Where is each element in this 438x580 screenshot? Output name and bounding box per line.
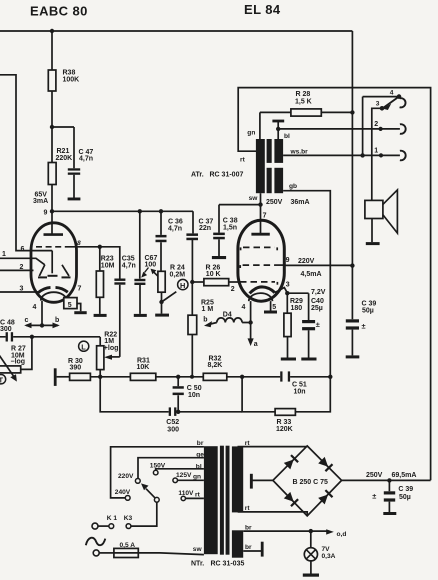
svg-text:0,2M: 0,2M	[170, 272, 186, 279]
bridge rectifier B 250 C 75 diamond	[273, 446, 342, 516]
wire screen 220V	[284, 264, 352, 266]
jack arc 2	[400, 124, 406, 134]
svg-text:7,2V: 7,2V	[311, 289, 326, 296]
node heater junction	[40, 323, 44, 327]
svg-text:10n: 10n	[294, 388, 306, 395]
label C52 300	[166, 419, 179, 433]
label sw	[249, 195, 259, 202]
diode bottom-left	[284, 492, 298, 506]
svg-text:1: 1	[2, 251, 6, 258]
capacitor C36	[156, 211, 167, 271]
label 125V	[176, 472, 192, 479]
node junction C50 bottom	[176, 410, 180, 414]
svg-text:b: b	[55, 317, 59, 324]
node junction R33 left	[240, 375, 244, 379]
wire contact3 to speaker	[372, 108, 382, 200]
svg-text:250V: 250V	[266, 199, 283, 206]
capacitor C50	[173, 377, 184, 412]
svg-text:−log: −log	[11, 359, 26, 366]
pin label 4	[242, 304, 246, 311]
label R27 10M -log	[11, 346, 26, 366]
svg-text:C52: C52	[166, 419, 179, 426]
svg-text:4: 4	[33, 304, 37, 311]
chassis bar C40	[301, 358, 316, 361]
chassis bar R24	[155, 314, 169, 317]
svg-text:b: b	[203, 316, 207, 323]
label R21 220K	[56, 148, 73, 162]
svg-text:4,7n: 4,7n	[168, 225, 182, 232]
inductor D4	[217, 318, 251, 323]
svg-text:L: L	[81, 342, 86, 351]
capacitor C51	[280, 371, 330, 381]
label 250V 69,5mA	[366, 472, 416, 479]
resistor R31	[130, 373, 203, 380]
node junction gb/R33	[328, 375, 332, 379]
label 7,2V	[311, 289, 326, 296]
wire shield to C35	[100, 247, 120, 279]
svg-text:±: ±	[362, 321, 366, 330]
chassis bar R29	[281, 358, 296, 361]
V1 cathode arcs	[38, 287, 68, 292]
node junction R25 bottom	[190, 375, 194, 379]
wire pin 1	[0, 258, 45, 265]
label bl NTr	[196, 463, 202, 470]
wire ge tap to 220V	[138, 458, 204, 479]
V1 diode plate left	[38, 265, 47, 278]
wire bl tap with terminal	[272, 120, 284, 139]
wire lower bus	[100, 377, 242, 412]
label sw NTr	[193, 546, 203, 553]
pin label 7	[78, 286, 82, 293]
V1 grid tick center	[48, 275, 58, 277]
svg-text:C40: C40	[311, 298, 324, 305]
wire br mains tap to 240V	[111, 447, 204, 498]
label C48 300	[0, 319, 15, 332]
wire contact 2	[278, 128, 400, 130]
label C 37 22n	[199, 218, 214, 232]
resistor R30	[57, 373, 131, 380]
AC tilde symbol	[86, 538, 106, 545]
V1 shield dashed pin 8	[36, 246, 100, 248]
transformer NTr core bars	[220, 446, 230, 555]
label ge	[196, 451, 204, 458]
label ATr. RC 31-007	[191, 171, 243, 178]
label C67 100 with arrow	[141, 255, 157, 278]
label R 28 1,5 K	[295, 91, 312, 105]
label gn	[247, 130, 255, 137]
node contact 1	[379, 153, 383, 157]
node pin 9 junction	[50, 209, 54, 213]
node junction bl/contact2	[276, 127, 280, 131]
label 7V 0,3A	[322, 546, 336, 560]
wire B+ top rail horizontal	[0, 30, 352, 32]
node junction C48/R27	[30, 335, 34, 339]
svg-text:10K: 10K	[137, 364, 150, 371]
wire mains to K1	[98, 525, 109, 527]
pin label 2	[20, 264, 24, 271]
wire pivot to K3	[131, 502, 157, 526]
terminal circle 110V	[181, 496, 185, 500]
switch circle K3	[126, 524, 131, 529]
pin label 5	[68, 302, 72, 309]
transformer ATr secondary bars	[274, 139, 283, 193]
svg-text:RC 31-035: RC 31-035	[211, 561, 245, 568]
label D4	[223, 312, 232, 319]
resistor R25	[188, 282, 197, 377]
label 220V	[118, 473, 134, 480]
wire pin 3	[0, 291, 39, 293]
resistor R32	[203, 373, 280, 380]
wire br heater top	[243, 530, 326, 532]
lamp 7V 0,3A	[304, 531, 317, 573]
svg-text:D4: D4	[223, 312, 232, 319]
node junction R38/R21/C47	[50, 125, 54, 129]
svg-text:1,5 K: 1,5 K	[295, 98, 312, 105]
potentiometer R24	[151, 269, 177, 314]
svg-text:bl: bl	[284, 133, 290, 140]
label R29 180	[290, 298, 303, 312]
label NTr. RC 31-035	[191, 561, 244, 568]
capacitor C39 electrolytic rail	[346, 319, 366, 355]
terminal circle 150V	[153, 470, 158, 475]
tube title EABC 80	[30, 4, 88, 19]
svg-text:4,5mA: 4,5mA	[301, 271, 322, 278]
label R 30 390	[68, 358, 83, 372]
svg-text:a: a	[254, 341, 258, 348]
label a	[254, 341, 258, 348]
contact 4 wire	[363, 96, 397, 98]
label 0,5 A	[120, 542, 136, 549]
terminal circle 240V	[125, 496, 130, 501]
node junction anode pin7	[258, 202, 262, 206]
capacitor C40 electrolytic	[287, 293, 320, 357]
transformer NTr heater winding bar	[232, 530, 243, 557]
wire gn tap to 125V	[178, 479, 204, 481]
svg-text:50µ: 50µ	[362, 308, 374, 315]
pin label 4	[33, 304, 37, 311]
svg-text:25µ: 25µ	[311, 305, 323, 312]
svg-text:100: 100	[145, 262, 157, 269]
svg-text:±: ±	[372, 492, 376, 501]
svg-text:c: c	[25, 317, 29, 324]
chassis bar pin5 EL84	[264, 311, 277, 314]
label C 39 50µ	[362, 300, 377, 314]
V2 heater arc	[249, 293, 273, 301]
terminal bar R30 left	[54, 368, 57, 386]
node junction bus/R22	[98, 375, 102, 379]
label ws.br	[290, 149, 309, 156]
svg-text:B 250 C 75: B 250 C 75	[293, 479, 329, 486]
contact labels 1 2 3 4	[374, 89, 394, 154]
node junction top of R38	[50, 29, 54, 33]
svg-text:4,7n: 4,7n	[122, 262, 136, 269]
svg-text:6: 6	[21, 246, 25, 253]
pin label 1	[2, 251, 6, 258]
node junction g1 EL84	[190, 280, 194, 284]
terminal bar heater	[261, 542, 264, 557]
label br	[197, 440, 204, 447]
resistor R28	[260, 109, 353, 116]
fuse 0,5A	[99, 548, 204, 557]
node junction D4/heater	[248, 320, 252, 324]
pin label 2 EL84	[231, 286, 235, 293]
svg-text:50µ: 50µ	[399, 494, 411, 501]
label bl	[284, 133, 290, 140]
svg-text:180: 180	[291, 305, 303, 312]
V2 anode lead pin 7	[251, 205, 269, 235]
label 220V	[298, 258, 315, 265]
control circle T	[0, 375, 6, 385]
wire contact4 to ws.br	[362, 97, 364, 156]
label B 250 C 75	[293, 479, 329, 486]
label c	[25, 317, 29, 324]
capacitor C48	[0, 332, 100, 341]
svg-text:10M: 10M	[101, 262, 115, 269]
diode top-right	[318, 457, 332, 471]
pin label 6	[21, 246, 25, 253]
node contact 2	[379, 127, 383, 131]
resistor R33	[242, 377, 330, 416]
wire wiper to R22	[104, 355, 120, 360]
pin label 3	[20, 286, 24, 293]
label C 36 4,7n	[168, 219, 183, 233]
terminal circle 220V	[135, 479, 140, 484]
node junction C36 top	[159, 209, 163, 213]
chassis bar C67	[134, 314, 147, 317]
label o,d	[337, 531, 347, 538]
V1 anode lead pin 9	[44, 211, 64, 234]
transformer NTr HT winding bar	[232, 446, 243, 512]
wire gn primary top	[259, 112, 261, 139]
svg-text:22n: 22n	[199, 225, 211, 232]
label br heater top	[245, 524, 252, 531]
svg-text:+log: +log	[104, 345, 119, 352]
svg-text:T: T	[0, 375, 4, 384]
label 240V	[115, 489, 131, 496]
svg-text:8: 8	[77, 240, 81, 247]
transformer ATr core bars	[267, 139, 272, 193]
transformer ATr primary bar	[256, 139, 265, 193]
resistor R26	[192, 279, 240, 286]
wire bridge left to terminal	[253, 479, 273, 481]
node junction cathode	[285, 291, 289, 295]
svg-text:10n: 10n	[188, 392, 200, 399]
svg-text:ws.br: ws.br	[290, 149, 309, 156]
label b	[55, 317, 59, 324]
pin label 3	[286, 282, 290, 289]
label R24 0,2M	[170, 265, 186, 279]
svg-text:240V: 240V	[115, 489, 131, 496]
label C 50 10n	[187, 385, 202, 399]
svg-text:±: ±	[316, 320, 320, 329]
svg-text:1 M: 1 M	[202, 306, 214, 313]
svg-text:9: 9	[44, 210, 48, 217]
svg-text:1,5n: 1,5n	[223, 224, 237, 231]
wire sw primary bottom	[260, 193, 262, 204]
wire B+ rail vertical	[351, 31, 353, 319]
svg-text:125V: 125V	[176, 472, 192, 479]
svg-text:H: H	[180, 281, 185, 290]
chassis bar C39 psu	[383, 512, 396, 515]
svg-text:0,3A: 0,3A	[322, 553, 336, 560]
label gb	[289, 183, 297, 190]
label 4,5mA	[301, 271, 322, 278]
wire rt primary to PSU	[238, 88, 430, 481]
label gn NTr	[193, 473, 201, 480]
wire rt tap to 110V	[186, 497, 204, 499]
terminal circle mains upper	[92, 523, 98, 529]
V1 grid drop	[51, 251, 53, 274]
label C47 4,7n	[79, 149, 94, 163]
svg-text:7: 7	[78, 286, 82, 293]
label br heater bottom	[245, 544, 252, 551]
svg-text:2: 2	[374, 121, 378, 128]
svg-text:gn: gn	[193, 473, 201, 480]
svg-text:4,7n: 4,7n	[79, 156, 93, 163]
terminal circle 125V	[173, 478, 178, 483]
resistor R23	[96, 247, 103, 314]
resistor R38	[48, 31, 56, 127]
svg-text:4: 4	[390, 89, 394, 96]
diode bottom-right	[318, 490, 332, 504]
svg-text:36mA: 36mA	[291, 199, 310, 206]
tube title EL 84	[244, 2, 281, 17]
label b	[203, 316, 207, 323]
chassis bar R23	[94, 314, 107, 317]
label R22 1M +log	[104, 331, 119, 351]
node junction ws.br/contact4	[360, 153, 364, 157]
wire pin 6 from left	[0, 75, 52, 251]
node junction 220V/rail	[350, 263, 354, 267]
chassis bar C47	[68, 198, 81, 201]
transformer NTr primary bar	[204, 446, 218, 554]
wire heater pin 4 down	[250, 301, 252, 322]
svg-text:300: 300	[167, 426, 179, 433]
wire bl tap to 150V	[156, 469, 204, 470]
capacitor C47	[52, 127, 80, 198]
pin label 5	[272, 304, 276, 311]
node junction shield/R23	[98, 245, 102, 249]
control circle H	[178, 279, 188, 290]
svg-text:rt: rt	[240, 156, 246, 163]
resistor R29	[284, 293, 291, 357]
svg-text:69,5mA: 69,5mA	[392, 472, 417, 479]
label rt HT top	[245, 440, 251, 447]
svg-text:R 33: R 33	[277, 419, 292, 426]
label 110V	[178, 490, 194, 497]
terminal bar bridge left	[250, 474, 253, 489]
svg-text:RC 31-007: RC 31-007	[210, 171, 244, 178]
wire ws.br secondary	[283, 154, 400, 156]
svg-text:sw: sw	[249, 195, 259, 202]
V2 screen grid dashed	[241, 247, 278, 250]
capacitor C39 electrolytic psu	[372, 480, 395, 512]
svg-text:10 K: 10 K	[206, 271, 221, 278]
svg-text:100K: 100K	[63, 76, 80, 83]
label C 38 1,5n	[223, 218, 238, 232]
svg-text:rt: rt	[245, 440, 251, 447]
jack arc 4	[400, 98, 406, 107]
terminal circle mains lower	[93, 550, 99, 556]
svg-text:7V: 7V	[322, 546, 331, 553]
wire HT top to bridge	[238, 446, 308, 448]
arrow a heater continues	[248, 323, 254, 347]
svg-text:110V: 110V	[178, 490, 194, 497]
svg-text:C 39: C 39	[362, 300, 377, 307]
capacitor C35	[114, 279, 125, 357]
label rt ATr	[240, 156, 246, 163]
label 65V 3mA	[33, 191, 48, 205]
label rt HT bottom	[245, 505, 251, 512]
svg-text:3: 3	[286, 282, 290, 289]
svg-text:250V: 250V	[366, 472, 383, 479]
chassis bar lamp	[303, 574, 319, 577]
svg-text:o,d: o,d	[337, 531, 347, 538]
svg-text:rt: rt	[195, 491, 201, 498]
svg-text:EABC 80: EABC 80	[30, 4, 88, 19]
svg-text:3: 3	[376, 100, 380, 107]
label R 26 10 K	[206, 264, 221, 278]
node junction C67 top	[138, 209, 142, 213]
pin label 9	[44, 210, 48, 217]
svg-text:120K: 120K	[276, 426, 293, 433]
resistor R21	[48, 127, 56, 211]
capacitor C67	[134, 211, 145, 314]
node contact 3	[380, 106, 385, 111]
svg-text:bl: bl	[196, 463, 202, 470]
pin 5 box	[64, 298, 81, 312]
jack arc 1	[400, 151, 406, 161]
label R38 100K	[63, 70, 80, 84]
pin label 8	[77, 240, 81, 247]
svg-text:2: 2	[231, 286, 235, 293]
wire HT bottom to bridge	[238, 512, 308, 516]
switch circle K1	[109, 524, 114, 529]
pin label 9	[286, 257, 290, 264]
node junction C39 psu	[387, 478, 391, 482]
speaker	[365, 190, 398, 242]
V2 grid3 dashed pin 9	[240, 265, 284, 268]
node junction lamp	[309, 529, 313, 533]
svg-text:K3: K3	[124, 515, 133, 522]
label C 51 10n	[292, 382, 307, 396]
svg-text:gn: gn	[247, 130, 255, 137]
label R 33 120K	[276, 419, 293, 433]
label R23 10M	[101, 255, 115, 269]
label rt NTr	[195, 491, 201, 498]
svg-text:EL 84: EL 84	[244, 2, 281, 17]
chassis bar pin5	[74, 311, 86, 314]
capacitor C38	[213, 205, 225, 256]
svg-text:4: 4	[242, 304, 246, 311]
svg-text:390: 390	[70, 365, 82, 372]
control circle L	[79, 341, 89, 351]
svg-text:7: 7	[263, 213, 267, 220]
wire anode C38	[219, 204, 261, 206]
V1 diode plate right	[62, 265, 71, 278]
diode top-left	[284, 455, 298, 469]
svg-text:R 28: R 28	[296, 91, 311, 98]
selector pivot circle	[154, 497, 159, 502]
svg-text:sw: sw	[193, 546, 203, 553]
svg-text:150V: 150V	[150, 463, 166, 470]
V2 grid1 dashed pin 2	[240, 282, 277, 285]
label R32 8,2K	[208, 356, 223, 370]
potentiometer R22	[97, 337, 104, 377]
wire heater drop	[41, 301, 43, 326]
V1 heater arc	[41, 292, 67, 300]
V2 cathode arc	[250, 287, 275, 294]
